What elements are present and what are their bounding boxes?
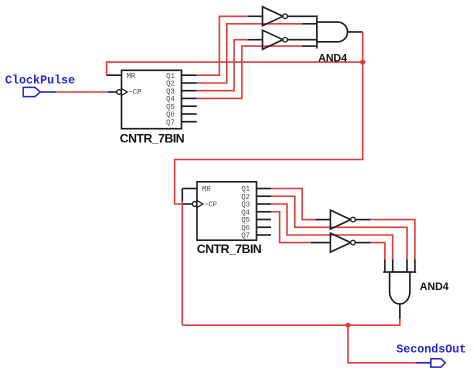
pin stub AND4#2 input 3	[406, 260, 408, 273]
wire U2 MR down to AND4#2 output net	[181, 189, 183, 202]
pin stub AND4#2 output	[399, 304, 401, 319]
svg-text:CNTR_7BIN: CNTR_7BIN	[197, 242, 261, 256]
counter U1 CNTR_7BIN box	[122, 70, 182, 128]
pin stub AND4#2 input 1	[384, 260, 386, 273]
svg-text:Q5: Q5	[166, 104, 175, 112]
svg-text:Q3: Q3	[166, 88, 175, 96]
U2 pin stub MR	[182, 188, 197, 190]
pin stub AND4#2 input 4	[414, 260, 416, 273]
wire U1 MR loop to AND4#1 output net	[107, 62, 363, 75]
svg-text:Q1: Q1	[166, 73, 175, 81]
pin stub AND4#1 input 2	[302, 23, 317, 25]
pin stub IV1 input	[248, 15, 263, 17]
input port ClockPulse symbol	[23, 87, 56, 96]
wire U2 Q4 to inverter IV4 input	[271, 212, 311, 243]
svg-text:AND4: AND4	[318, 52, 347, 64]
wire AND4#2 output to bottom rail	[182, 319, 400, 325]
svg-text:MR: MR	[127, 73, 136, 81]
pin stub IV3 input	[315, 219, 330, 221]
pin stub AND4#1 input 4	[302, 45, 317, 47]
output port SecondsOut symbol	[416, 359, 445, 367]
pin stub AND4#2 input 2	[392, 260, 394, 273]
pin stub IV1 output to AND4#1 input 1	[288, 15, 317, 17]
svg-text:CNTR_7BIN: CNTR_7BIN	[120, 132, 184, 146]
wire U1 Q1 to inverter IV1 input	[197, 16, 248, 75]
wire junction to SecondsOut	[348, 325, 416, 363]
AND gate AND4#1	[317, 15, 348, 48]
pin stub AND4#1 output	[348, 31, 363, 33]
U2 pin labels Q1-Q7	[241, 186, 250, 241]
inverter IV4	[330, 233, 355, 252]
U1 pin stubs Q1-Q7	[182, 75, 197, 122]
svg-text:~CP: ~CP	[204, 202, 217, 210]
svg-text:Q7: Q7	[241, 233, 250, 241]
wire ClockPulse to U1 ~CP	[56, 91, 108, 93]
U2 pin stubs Q1-Q7	[257, 189, 272, 236]
U1 pin labels Q1-Q7	[166, 73, 175, 128]
pin stub IV2 input	[248, 39, 263, 41]
pin stub U1 ~CP	[108, 91, 117, 93]
U2 ~CP inversion bubble	[192, 202, 197, 207]
pin stub IV3 output	[355, 219, 370, 221]
svg-text:~CP: ~CP	[129, 89, 142, 97]
svg-text:AND4: AND4	[420, 281, 449, 293]
wire U1 Q4 to AND4#1 input 4	[197, 46, 302, 98]
pin stub IV4 input	[311, 242, 330, 244]
svg-text:Q2: Q2	[241, 194, 250, 202]
wire U2 Q2 to AND4#2 input 3	[271, 196, 407, 259]
svg-text:MR: MR	[202, 186, 211, 194]
U1 pin stub MR	[106, 74, 121, 76]
pin stub U2 ~CP	[183, 203, 192, 205]
wire U2 Q3 to AND4#2 input 2	[271, 204, 393, 260]
pin stub IV2 output to AND4#1 input 3	[288, 39, 317, 41]
inverter IV2	[263, 30, 288, 49]
U1 ~CP clock arrow	[122, 89, 128, 96]
wire IV3 output to AND4#2 input 4	[371, 220, 415, 260]
wire AND4#1 output down to U2 ~CP	[175, 32, 363, 204]
U2 ~CP clock arrow	[197, 201, 203, 208]
svg-text:Q6: Q6	[241, 225, 250, 233]
counter U2 CNTR_7BIN box	[197, 182, 257, 240]
svg-text:Q4: Q4	[241, 209, 250, 217]
pin stub IV4 output	[355, 242, 370, 244]
junction node bottom rail / SecondsOut	[345, 323, 350, 328]
U1 ~CP inversion bubble	[117, 90, 122, 95]
wire IV4 output to AND4#2 input 1	[371, 243, 385, 260]
inverter IV3	[330, 210, 355, 229]
wire U1 Q3 to inverter IV2 input	[197, 40, 248, 91]
junction node AND4#1 output / U1 MR	[360, 60, 365, 65]
svg-text:ClockPulse: ClockPulse	[5, 74, 75, 88]
wire U1 Q2 to AND4#1 input 2	[197, 24, 302, 83]
svg-text:Q7: Q7	[166, 119, 175, 127]
svg-text:SecondsOut: SecondsOut	[396, 343, 466, 357]
AND gate AND4#2 (vertical)	[383, 272, 416, 304]
inverter IV1	[263, 7, 288, 26]
wire U2 Q1 to inverter IV3 input	[271, 189, 315, 220]
